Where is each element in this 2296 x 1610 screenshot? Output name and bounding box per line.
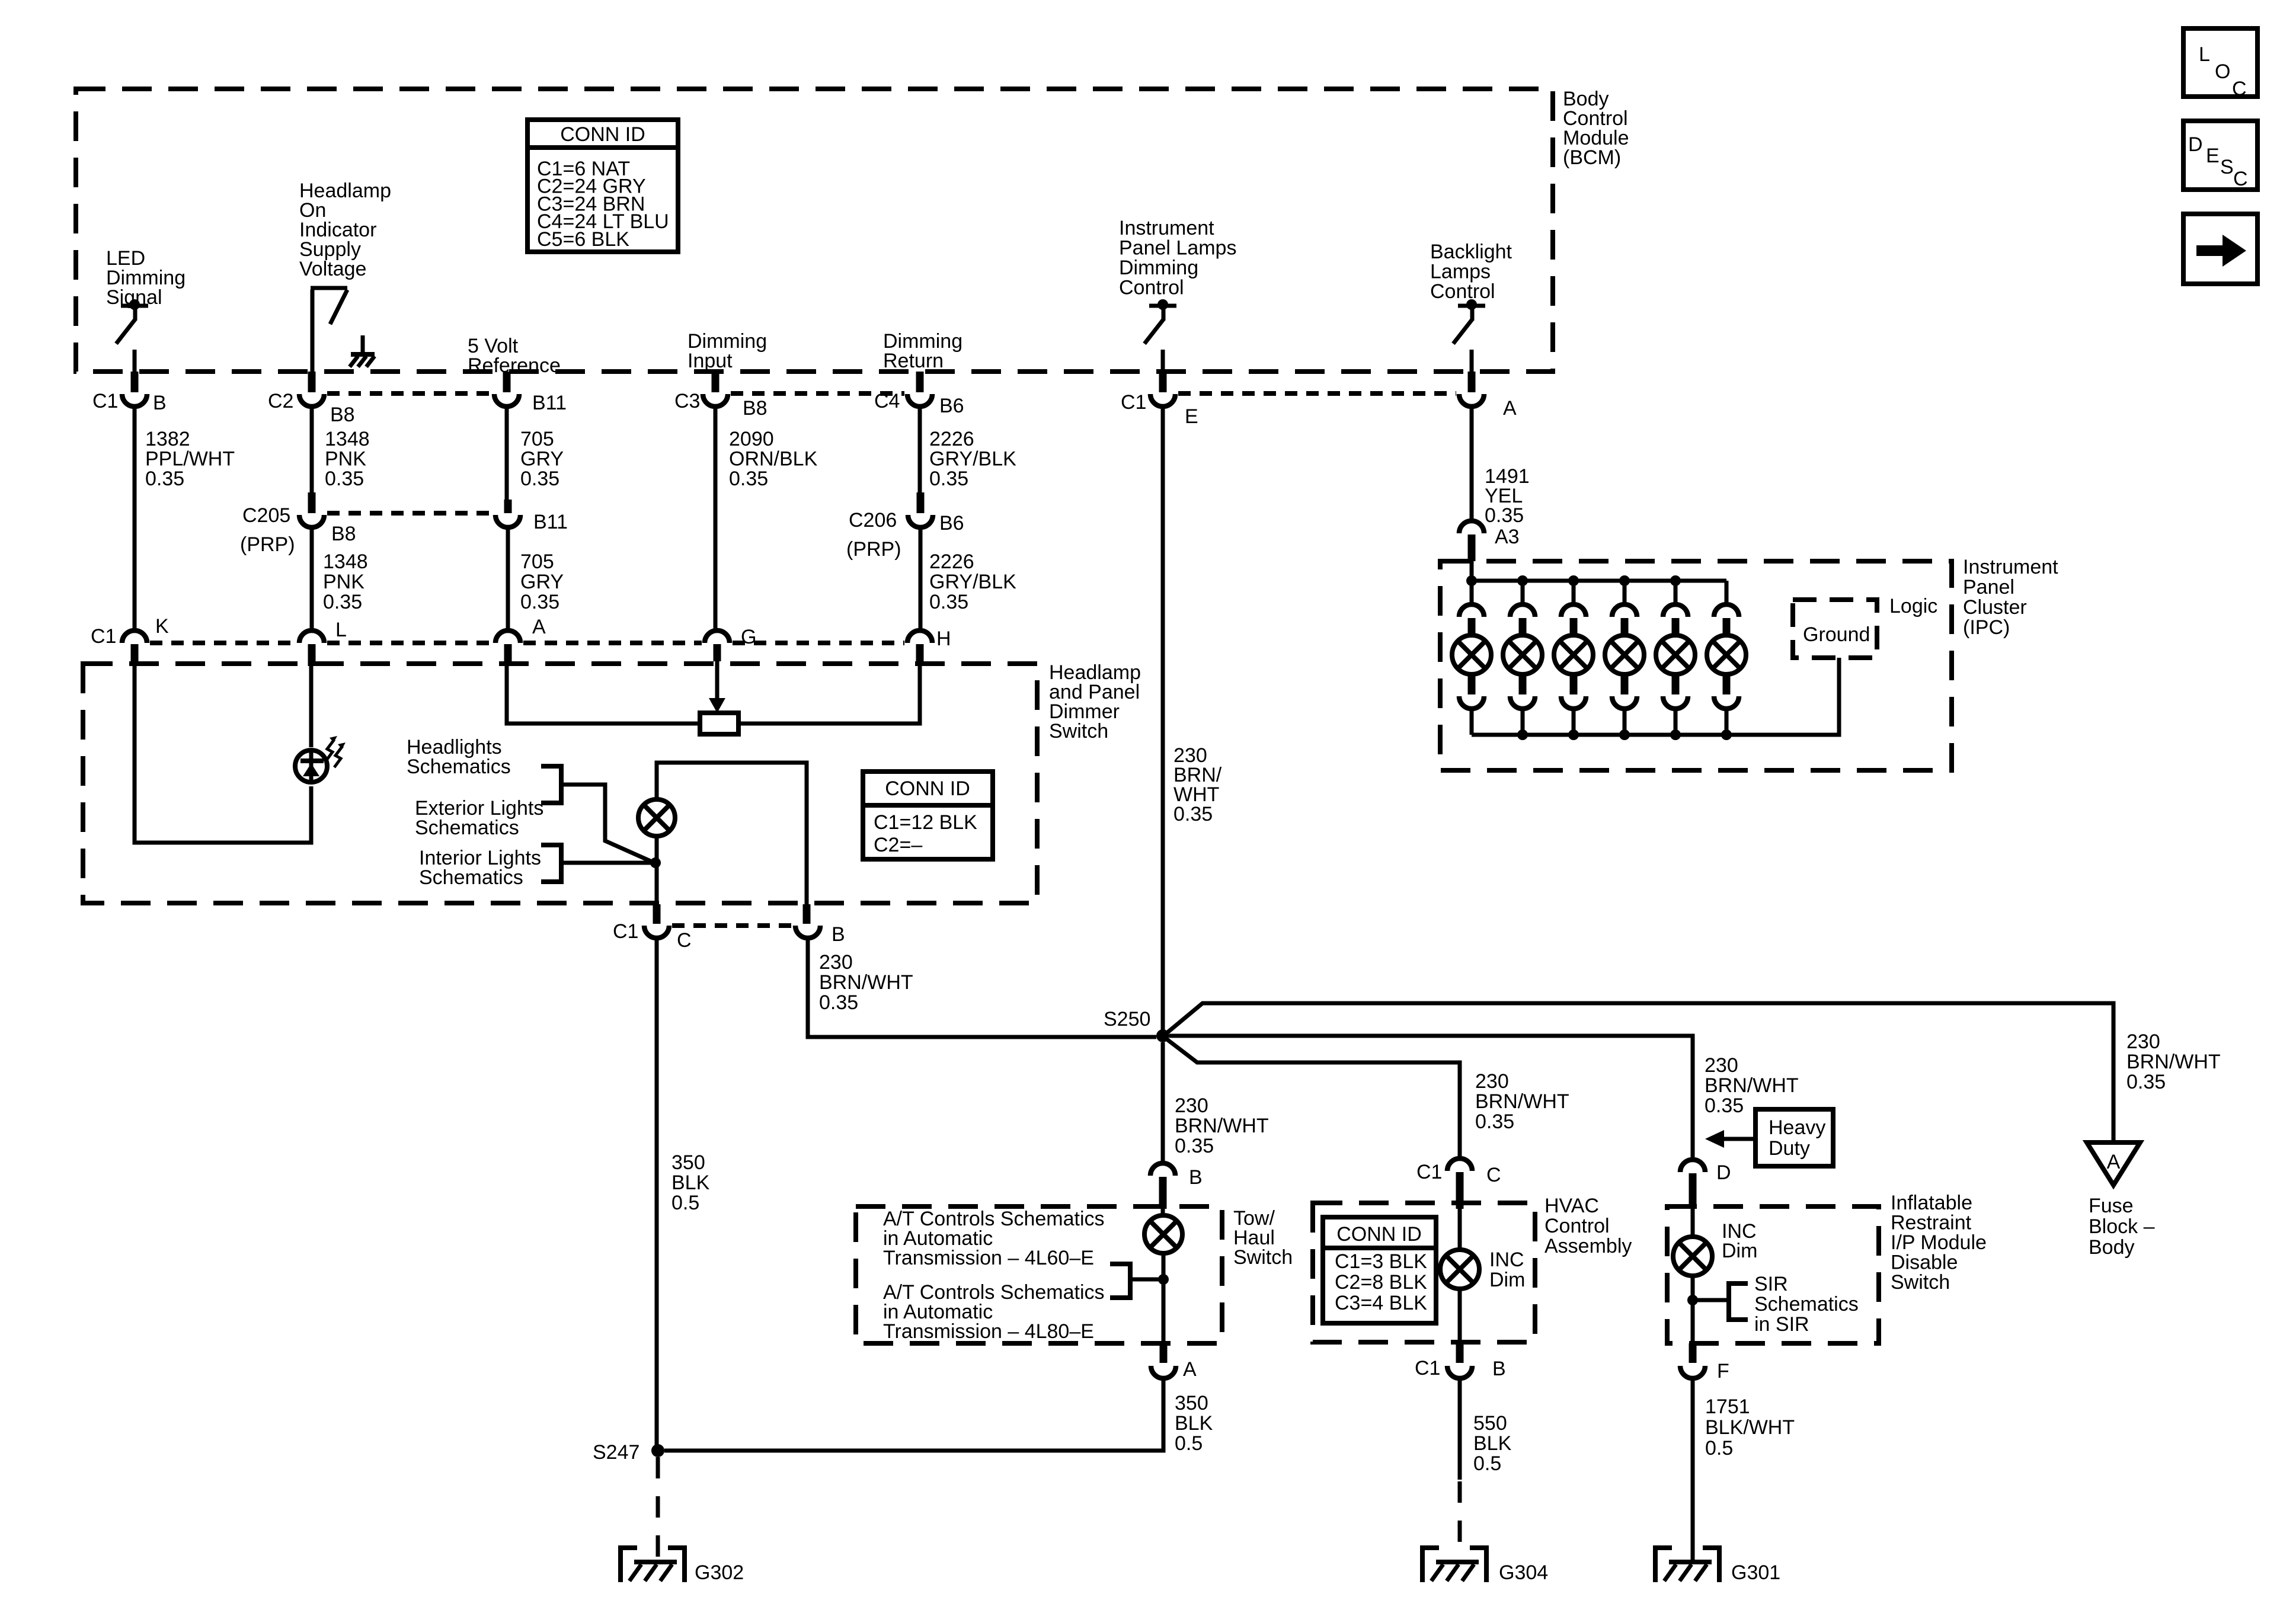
svg-text:230: 230 (1175, 1094, 1208, 1117)
tow lamp wire top (1161, 1209, 1165, 1215)
svg-text:Instrument: Instrument (1963, 556, 2058, 578)
svg-text:Voltage: Voltage (299, 258, 366, 280)
svg-text:C1=3 BLK: C1=3 BLK (1335, 1250, 1427, 1273)
svg-text:PPL/WHT: PPL/WHT (145, 448, 235, 470)
svg-text:Body: Body (2089, 1236, 2135, 1259)
Logic Ground dashed box (1793, 600, 1877, 658)
connector A pin (dimmer) (504, 644, 512, 661)
IPC lamp 2 bottom connector (1519, 673, 1527, 694)
svg-text:C1=12 BLK: C1=12 BLK (874, 811, 977, 834)
wire S250 to fuse block (1167, 1003, 2113, 1142)
backlight lamps control switch (1458, 304, 1485, 308)
svg-text:Logic: Logic (1889, 595, 1937, 617)
svg-text:Instrument: Instrument (1119, 217, 1214, 239)
svg-text:Transmission – 4L80–E: Transmission – 4L80–E (883, 1320, 1094, 1343)
svg-text:B11: B11 (532, 392, 567, 414)
Heavy Duty box (1755, 1109, 1833, 1166)
IPC lamp 5 (1656, 635, 1695, 674)
svg-text:A: A (1503, 397, 1517, 420)
svg-text:C2=8 BLK: C2=8 BLK (1335, 1271, 1427, 1294)
junction dot top bus 1 (1466, 575, 1477, 586)
svg-text:GRY/BLK: GRY/BLK (929, 448, 1016, 470)
IPC lamp 6 top connector (1725, 581, 1729, 603)
wire S250 to D (1169, 1036, 1693, 1158)
connector G arch (705, 630, 730, 643)
wire L to LED (309, 666, 314, 747)
junction dot top bus 4 (1619, 575, 1630, 586)
svg-text:Restraint: Restraint (1891, 1212, 1972, 1234)
svg-text:0.35: 0.35 (819, 991, 858, 1014)
junction dot bottom bus 6 (1721, 729, 1732, 740)
svg-text:B: B (1189, 1166, 1203, 1189)
svg-text:0.35: 0.35 (2126, 1071, 2166, 1093)
svg-text:CONN ID: CONN ID (885, 777, 970, 800)
dashed wire to G304 (1458, 1481, 1462, 1562)
tow/haul lamp (1144, 1215, 1182, 1253)
svg-text:0.35: 0.35 (1175, 1135, 1214, 1157)
svg-text:BLK/WHT: BLK/WHT (1705, 1416, 1795, 1439)
svg-text:SIR: SIR (1754, 1273, 1788, 1295)
svg-text:0.35: 0.35 (520, 468, 559, 490)
svg-text:350: 350 (1175, 1392, 1208, 1414)
svg-text:GRY: GRY (520, 571, 564, 593)
connector cup x=526 (299, 394, 324, 406)
wire C to S247 (655, 939, 659, 1451)
junction dot bottom bus 4 (1619, 729, 1630, 740)
ground G302 (621, 1548, 637, 1582)
svg-text:D: D (1716, 1161, 1731, 1184)
connector D arch (1680, 1160, 1705, 1172)
junction dot bottom bus 3 (1568, 729, 1579, 740)
connector A arch (dimmer) (495, 630, 520, 643)
svg-text:BRN/WHT: BRN/WHT (1705, 1074, 1799, 1097)
svg-text:BRN/WHT: BRN/WHT (1475, 1090, 1569, 1113)
svg-text:B11: B11 (533, 511, 568, 533)
svg-text:B8: B8 (330, 404, 355, 426)
svg-text:Schematics: Schematics (407, 756, 511, 778)
svg-text:2090: 2090 (729, 428, 774, 450)
CONN ID table (dimmer) (863, 772, 993, 859)
connector cup x=2483 (1459, 394, 1484, 406)
connector A cup (tow) (1151, 1366, 1176, 1378)
IPC top bus (1472, 579, 1726, 583)
dotted connector link C205-B11 (327, 511, 493, 516)
svg-text:C1: C1 (613, 920, 638, 943)
svg-text:Fuse: Fuse (2089, 1195, 2134, 1217)
connector D pin (1689, 1173, 1697, 1209)
svg-text:350: 350 (671, 1151, 705, 1174)
wire SIR bracket (1693, 1298, 1729, 1302)
svg-text:Panel: Panel (1963, 576, 2014, 598)
dotted link G-H (733, 641, 904, 645)
dashed wire S247 to G302 (656, 1457, 660, 1562)
svg-text:0.5: 0.5 (1705, 1437, 1733, 1459)
svg-text:CONN ID: CONN ID (560, 123, 645, 146)
wire A to potentiometer (507, 661, 700, 724)
svg-text:1382: 1382 (145, 428, 190, 450)
svg-text:C5=6 BLK: C5=6 BLK (537, 228, 629, 251)
svg-text:0.35: 0.35 (1173, 803, 1213, 825)
svg-text:C3=4 BLK: C3=4 BLK (1335, 1292, 1427, 1314)
svg-text:Reference: Reference (468, 354, 561, 377)
IPC lamp 5 top connector (1674, 581, 1678, 603)
svg-text:Switch: Switch (1049, 720, 1108, 742)
connector pin at BCM x=1552 (916, 372, 924, 392)
svg-text:705: 705 (520, 428, 554, 450)
svg-text:HVAC: HVAC (1544, 1195, 1599, 1217)
svg-text:PNK: PNK (325, 448, 366, 470)
connector cup x=1962 (1150, 394, 1175, 406)
svg-text:0.35: 0.35 (520, 591, 559, 613)
svg-text:0.35: 0.35 (1475, 1110, 1514, 1133)
svg-text:BRN/WHT: BRN/WHT (819, 971, 913, 994)
svg-text:0.5: 0.5 (1175, 1432, 1203, 1455)
connector B cup (HVAC) (1447, 1366, 1472, 1378)
svg-text:Input: Input (687, 350, 733, 372)
svg-text:B: B (832, 923, 845, 946)
connector A3 arch (1459, 521, 1484, 533)
connector B pin (tow) (1159, 1177, 1167, 1209)
svg-text:Dim: Dim (1489, 1269, 1525, 1291)
svg-text:GRY/BLK: GRY/BLK (929, 571, 1016, 593)
svg-text:(PRP): (PRP) (240, 533, 295, 556)
svg-text:550: 550 (1473, 1412, 1507, 1435)
IPC bottom bus (1472, 658, 1839, 735)
svg-text:230: 230 (1705, 1054, 1738, 1077)
wire bracket to tow wire (1130, 1278, 1163, 1282)
svg-text:0.35: 0.35 (325, 468, 364, 490)
wire B dimmer to S250 (808, 939, 1156, 1037)
junction dot tow (1158, 1274, 1169, 1285)
IPC lamp 4 (1605, 635, 1644, 674)
connector C206 cup (908, 515, 933, 527)
connector pin at BCM x=526 (308, 372, 316, 392)
connector G pin (714, 644, 721, 661)
svg-text:L: L (335, 619, 347, 641)
svg-text:C: C (2232, 78, 2247, 100)
svg-text:C: C (1486, 1164, 1501, 1186)
connector B11 pin (row2) (504, 500, 512, 513)
svg-text:B8: B8 (331, 523, 356, 545)
wire A to A3 (1470, 408, 1474, 520)
svg-text:S247: S247 (593, 1441, 639, 1464)
IPC lamp 1 bottom connector (1468, 673, 1476, 694)
interior reference bracket (541, 845, 561, 882)
LED indicator (295, 750, 327, 782)
ground G301 (1655, 1548, 1672, 1582)
svg-text:B6: B6 (939, 512, 964, 534)
wire HVAC lamp bottom (1458, 1288, 1462, 1343)
svg-text:0.35: 0.35 (145, 468, 184, 490)
connector B pin (dimmer) (803, 904, 811, 924)
dotted link C-B (672, 923, 792, 928)
IPC lamp 6 bottom connector (1723, 673, 1731, 694)
svg-text:C: C (677, 929, 692, 952)
IPC lamp 6 (1707, 635, 1746, 674)
svg-text:E: E (1185, 405, 1198, 428)
Body Control Module (BCM) dashed box (76, 89, 1553, 372)
connector F pin (1689, 1343, 1697, 1363)
wire potentiometer to H (738, 666, 920, 724)
LOC legend box (2183, 28, 2257, 97)
svg-text:(BCM): (BCM) (1563, 146, 1621, 169)
IPC lamp 3 top connector (1572, 581, 1576, 603)
svg-text:(IPC): (IPC) (1963, 616, 2010, 639)
svg-text:0.35: 0.35 (1485, 504, 1524, 527)
splice S247 (651, 1444, 664, 1457)
Instrument Panel Cluster dashed box (1440, 561, 1952, 770)
svg-text:A: A (532, 616, 546, 638)
svg-text:Inflatable: Inflatable (1891, 1192, 1972, 1214)
wire 2226 GRY/BLK lower (919, 529, 923, 629)
svg-text:Panel Lamps: Panel Lamps (1119, 237, 1236, 260)
Headlamp and Panel Dimmer Switch dashed box (83, 664, 1037, 903)
svg-text:Control: Control (1430, 280, 1495, 303)
connector pin at BCM x=855 (503, 372, 511, 392)
connector cup x=227 (122, 394, 147, 406)
svg-text:2226: 2226 (929, 428, 974, 450)
IPC lamp 2 (1503, 635, 1542, 674)
svg-text:C206: C206 (849, 509, 897, 532)
svg-text:PNK: PNK (323, 571, 364, 593)
connector C205 pin (308, 492, 316, 513)
svg-text:Control: Control (1544, 1215, 1610, 1237)
svg-text:I/P Module: I/P Module (1891, 1231, 1987, 1254)
wire K to LED (135, 666, 311, 843)
svg-text:C1: C1 (92, 390, 118, 412)
svg-text:F: F (1717, 1360, 1729, 1382)
wire lamp bottom to C (655, 836, 659, 904)
svg-text:D: D (2188, 133, 2203, 156)
connector C pin (HVAC) (1456, 1172, 1464, 1209)
connector pin at BCM x=1207 (712, 372, 720, 392)
svg-text:Schematics: Schematics (415, 817, 519, 839)
svg-text:230: 230 (1475, 1070, 1509, 1093)
svg-text:Block –: Block – (2089, 1215, 2155, 1238)
wire G wiper with arrow (715, 661, 720, 703)
svg-text:Control: Control (1119, 277, 1184, 299)
junction dot interior (650, 857, 661, 868)
fuse block triangle A (2087, 1142, 2140, 1185)
junction dot top bus 5 (1670, 575, 1681, 586)
HVAC lamp (1440, 1250, 1479, 1289)
CONN ID table (HVAC) (1323, 1217, 1436, 1323)
dotted connector link C2-B11 (327, 391, 491, 396)
wire bracket2 to junction (561, 861, 654, 865)
splice S250 (1156, 1029, 1169, 1042)
connector cup x=1207 (703, 394, 728, 406)
dotted link K-L (150, 641, 296, 645)
connector K pin (131, 644, 139, 666)
connector C pin (653, 904, 661, 924)
wire 1382 PPL/WHT (133, 408, 137, 629)
svg-text:Schematics: Schematics (419, 866, 523, 889)
Tow/Haul dashed box (856, 1206, 1222, 1343)
svg-text:A: A (2107, 1151, 2121, 1173)
svg-text:BLK: BLK (1473, 1432, 1512, 1455)
IPC lamp 3 bottom connector (1570, 673, 1578, 694)
wire F to G301 (1691, 1379, 1695, 1562)
IPC lamp 1 top connector (1470, 581, 1474, 603)
connector C1/C arch (HVAC) (1447, 1158, 1472, 1171)
svg-text:Heavy: Heavy (1769, 1116, 1825, 1139)
svg-text:Schematics: Schematics (1754, 1293, 1859, 1315)
junction dot SIR (1687, 1295, 1698, 1305)
wire tow lamp down (1162, 1253, 1166, 1345)
svg-text:Transmission – 4L60–E: Transmission – 4L60–E (883, 1247, 1094, 1269)
svg-text:GRY: GRY (520, 448, 564, 470)
svg-text:705: 705 (520, 550, 554, 573)
svg-text:Assembly: Assembly (1544, 1235, 1632, 1257)
IPC lamp 5 bottom connector (1672, 673, 1680, 694)
svg-text:C3: C3 (674, 390, 700, 412)
svg-text:O: O (2215, 60, 2230, 83)
LED dimming signal switch (121, 304, 148, 308)
HVAC dashed box (1313, 1203, 1535, 1342)
svg-text:C2: C2 (268, 390, 293, 412)
svg-text:in SIR: in SIR (1754, 1313, 1809, 1336)
svg-text:BLK: BLK (671, 1172, 710, 1194)
dotted link A-G (523, 641, 702, 645)
svg-text:Return: Return (883, 350, 944, 372)
connector C205 cup (299, 515, 324, 527)
svg-text:C1: C1 (1121, 391, 1146, 414)
junction dot top bus 3 (1568, 575, 1579, 586)
svg-text:0.35: 0.35 (323, 591, 362, 613)
svg-text:230: 230 (2126, 1030, 2160, 1053)
svg-text:C1: C1 (1416, 1161, 1442, 1183)
connector B cup (dimmer) (795, 926, 820, 938)
potentiometer element (700, 713, 738, 734)
connector H arch (907, 630, 932, 643)
wire 1348 PNK lower (310, 529, 314, 629)
SIR dashed box (1667, 1206, 1879, 1343)
svg-text:(PRP): (PRP) (846, 538, 901, 561)
svg-text:ORN/BLK: ORN/BLK (729, 448, 818, 470)
dotted connector link C3-C4 (731, 391, 904, 396)
arrow legend box (2183, 214, 2257, 284)
wire S250 to C (1167, 1039, 1460, 1157)
svg-text:1751: 1751 (1705, 1395, 1750, 1418)
svg-text:B8: B8 (743, 397, 768, 420)
IPC lamp 2 top connector (1521, 581, 1525, 603)
svg-text:CONN ID: CONN ID (1336, 1223, 1422, 1246)
svg-text:1348: 1348 (325, 428, 370, 450)
IPC lamp 3 (1554, 635, 1593, 674)
wire SIR lamp top (1691, 1209, 1695, 1237)
wire B to G304 (1458, 1379, 1462, 1480)
dimmer lamp (638, 799, 675, 836)
connector K arch (122, 630, 147, 643)
svg-text:Duty: Duty (1769, 1137, 1810, 1160)
connector cup x=855 (494, 394, 519, 406)
connector C1/C cup (644, 926, 669, 938)
connector C206 pin (917, 492, 925, 513)
headlamp-on indicator switch with ground (311, 290, 315, 372)
wire 705 GRY upper (505, 408, 509, 501)
IPC lamp 4 top connector (1623, 581, 1627, 603)
connector cup x=1552 (907, 394, 932, 406)
svg-text:C1: C1 (91, 625, 116, 648)
wire SIR lamp bottom (1691, 1275, 1695, 1343)
connector B11 cup (row2) (495, 515, 520, 527)
connector A3 pin (1468, 534, 1476, 561)
svg-text:BRN/WHT: BRN/WHT (1175, 1115, 1269, 1137)
wire lamp top to B (657, 763, 807, 904)
svg-text:C2=–: C2=– (874, 834, 922, 856)
svg-text:A: A (1183, 1358, 1197, 1381)
svg-text:Dim: Dim (1722, 1240, 1757, 1262)
svg-text:0.35: 0.35 (929, 591, 968, 613)
wire A to S247 (664, 1379, 1163, 1451)
wire HVAC lamp top (1458, 1209, 1462, 1250)
wire S250 down to B (1161, 1042, 1165, 1161)
connector B arch (tow) (1150, 1163, 1175, 1176)
wire A3 into IPC (1470, 561, 1474, 581)
svg-text:0.35: 0.35 (1705, 1094, 1744, 1117)
svg-text:S: S (2220, 156, 2234, 178)
svg-text:0.5: 0.5 (1473, 1452, 1501, 1475)
connector L arch (299, 630, 324, 643)
IPC lamp 1 (1452, 635, 1491, 674)
svg-text:Lamps: Lamps (1430, 261, 1491, 283)
connector pin at BCM x=1962 (1159, 372, 1167, 392)
CONN ID table (BCM) (527, 120, 678, 252)
svg-text:B: B (1492, 1358, 1506, 1380)
svg-text:L: L (2199, 43, 2210, 66)
wire E to S250 (1161, 408, 1165, 1036)
DESC legend box (2183, 121, 2257, 190)
wire 705 GRY lower (506, 529, 510, 629)
instrument panel lamps dimming control switch (1149, 304, 1176, 308)
svg-text:B: B (153, 392, 167, 414)
ground G304 (1422, 1548, 1439, 1582)
svg-text:0.35: 0.35 (729, 468, 768, 490)
connector pin at BCM x=227 (131, 372, 139, 392)
svg-text:Switch: Switch (1891, 1271, 1950, 1294)
junction dot bottom bus 2 (1517, 729, 1528, 740)
svg-text:Dimming: Dimming (1119, 257, 1198, 279)
connector L pin (308, 644, 316, 666)
svg-text:G301: G301 (1731, 1561, 1780, 1584)
connector F cup (1680, 1366, 1705, 1378)
svg-text:Backlight: Backlight (1430, 241, 1512, 263)
IPC lamp 4 bottom connector (1621, 673, 1629, 694)
svg-text:BRN/WHT: BRN/WHT (2126, 1051, 2221, 1073)
svg-text:Switch: Switch (1233, 1246, 1293, 1269)
wire 1348 PNK upper (310, 408, 314, 494)
connector A pin (tow) (1160, 1343, 1168, 1363)
SIR reference bracket (1729, 1283, 1748, 1320)
connector B pin (HVAC) (1456, 1343, 1464, 1363)
svg-text:C205: C205 (242, 504, 290, 527)
svg-text:Cluster: Cluster (1963, 596, 2027, 619)
connector pin at BCM x=2483 (1468, 372, 1476, 392)
headlights/exterior reference bracket (541, 766, 561, 803)
svg-text:E: E (2206, 145, 2220, 167)
svg-text:S250: S250 (1104, 1008, 1150, 1030)
svg-text:K: K (155, 615, 169, 638)
svg-text:0.35: 0.35 (929, 468, 968, 490)
svg-text:1348: 1348 (323, 550, 368, 573)
junction dot bottom bus 5 (1670, 729, 1681, 740)
dotted link L-A (327, 641, 493, 645)
svg-text:0.5: 0.5 (671, 1192, 699, 1214)
svg-text:Ground: Ground (1803, 623, 1870, 646)
wire 2090 ORN/BLK (714, 408, 718, 629)
wire 2226 GRY/BLK upper (918, 408, 922, 494)
svg-text:Disable: Disable (1891, 1251, 1958, 1274)
